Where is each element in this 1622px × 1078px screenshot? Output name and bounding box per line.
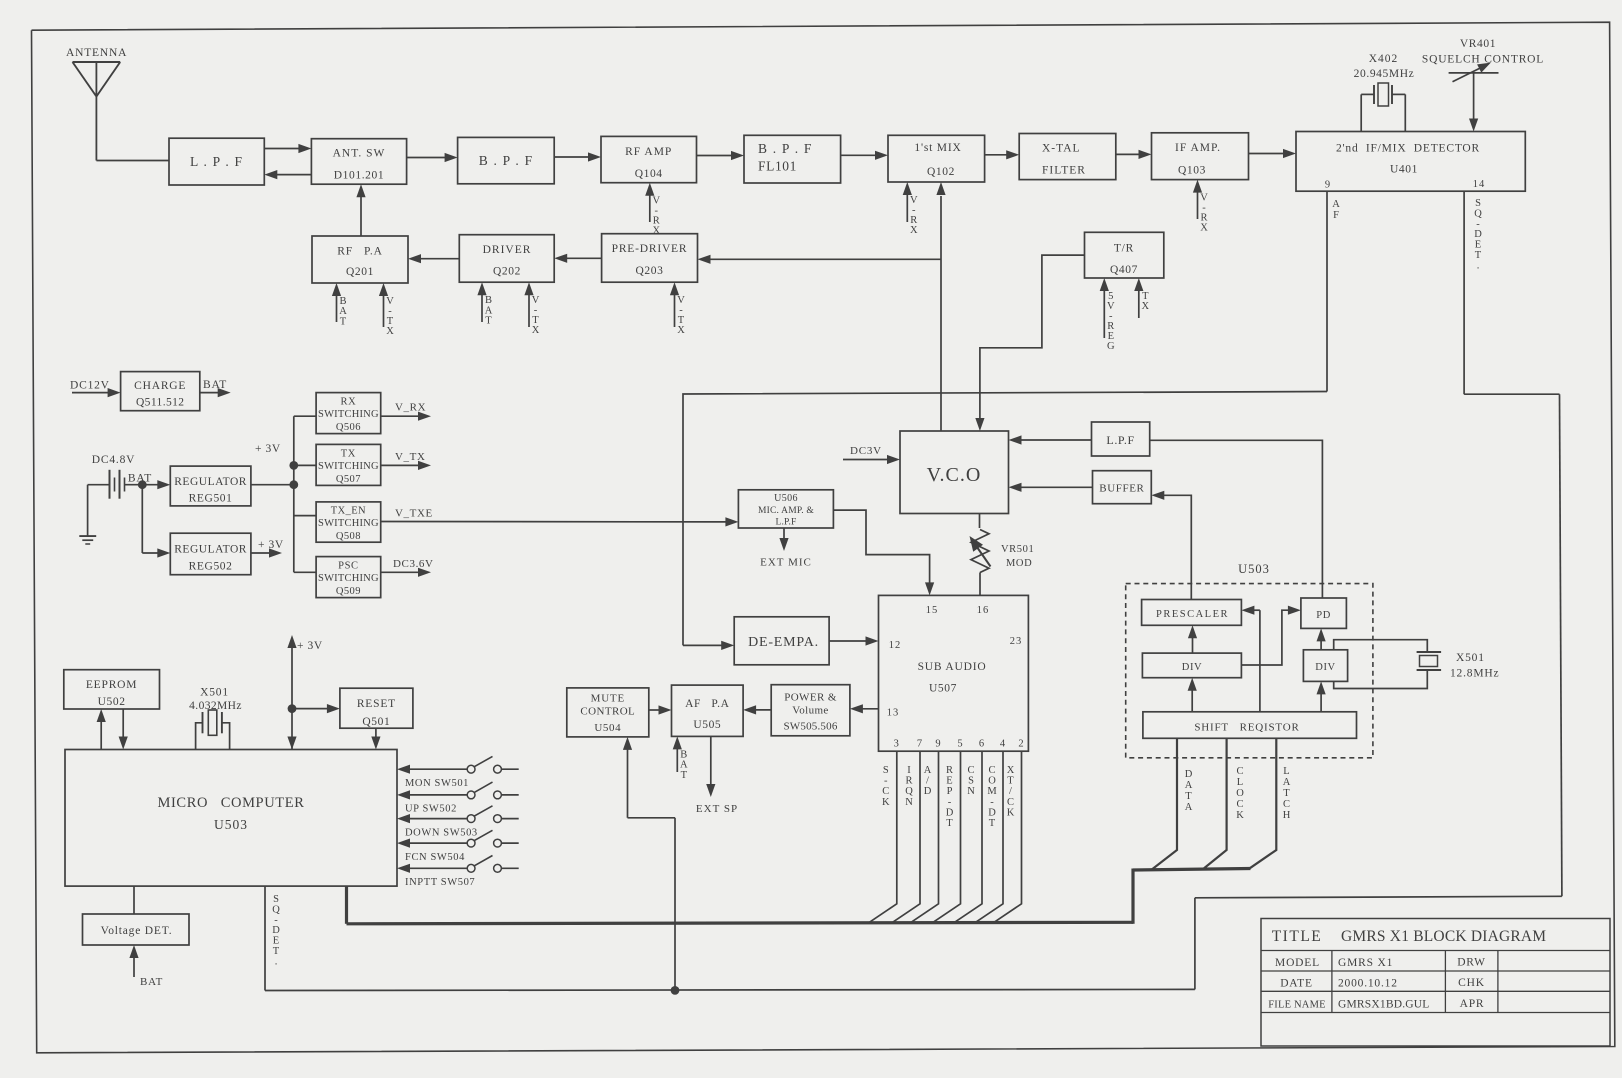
wire RESET to micro [375, 728, 377, 738]
block L.P.F (PLL loop filter) [1092, 422, 1150, 456]
svg-text:F: F [1333, 210, 1339, 221]
svg-text:FCN SW504: FCN SW504 [405, 852, 465, 863]
svg-text:GMRS X1: GMRS X1 [1338, 957, 1393, 969]
wire SQ-DET from micro to U401 pin14 [264, 886, 266, 990]
svg-text:TX: TX [341, 449, 356, 460]
EXT SP arrow [710, 736, 712, 786]
svg-text:ANT. SW: ANT. SW [333, 148, 386, 160]
svg-text:/: / [1009, 786, 1012, 797]
svg-text:U505: U505 [693, 719, 721, 731]
svg-text:D: D [1474, 229, 1482, 240]
EXT MIC arrow [783, 528, 785, 540]
svg-text:Q407: Q407 [1110, 264, 1138, 276]
wire BAT to REG501 [142, 484, 159, 486]
svg-text:Q203: Q203 [636, 265, 664, 277]
wire BPF FL101 to 1st MIX [841, 154, 877, 156]
block ANT.SW D101.201 [311, 139, 406, 185]
svg-text:N: N [905, 797, 913, 808]
svg-text:D: D [946, 807, 954, 818]
svg-text:EXT SP: EXT SP [696, 803, 738, 815]
svg-text:POWER &: POWER & [784, 692, 837, 704]
wire 1st MIX to X-TAL filter [985, 154, 1009, 156]
block T/R Q407 [1085, 232, 1164, 278]
svg-text:Q103: Q103 [1178, 165, 1206, 177]
+3V output arrow of REG502 [251, 552, 271, 554]
svg-text:IF AMP.: IF AMP. [1175, 142, 1221, 154]
svg-text:13: 13 [887, 708, 900, 719]
svg-text:-: - [1476, 219, 1480, 230]
svg-text:T: T [273, 946, 280, 957]
wire micro to EEPROM [100, 720, 102, 750]
block DIV (comparison side) [1303, 650, 1347, 682]
svg-text:PSC: PSC [338, 561, 358, 572]
wire EEPROM to micro [122, 709, 124, 739]
svg-text:DATE: DATE [1280, 978, 1313, 990]
svg-text:Q501: Q501 [362, 716, 390, 728]
wire BUFFER to VCO [1020, 486, 1093, 488]
svg-text:VR501: VR501 [1001, 544, 1034, 555]
ground [87, 485, 89, 536]
svg-text:X: X [532, 325, 540, 336]
svg-text:D: D [988, 807, 996, 818]
svg-text:TITLE: TITLE [1272, 928, 1323, 945]
svg-text:AF P.A: AF P.A [685, 698, 730, 710]
wire PD to LPF [1150, 440, 1323, 598]
block RF P.A Q201 [312, 236, 408, 283]
svg-text:REGULATOR: REGULATOR [174, 476, 247, 488]
svg-text:APR: APR [1460, 998, 1485, 1010]
wire U507 pin fanout SCK [869, 751, 897, 923]
svg-text:U502: U502 [98, 696, 126, 708]
svg-text:.: . [1477, 260, 1480, 271]
svg-text:T: T [485, 316, 492, 327]
wire POWER to AF P.A [754, 709, 771, 711]
block POWER & Volume SW505.506 [771, 685, 850, 736]
svg-text:5: 5 [957, 739, 963, 750]
svg-text:12: 12 [889, 640, 902, 651]
block 1'st MIX Q102 [888, 135, 985, 182]
svg-text:Q: Q [905, 786, 913, 797]
antenna [73, 61, 121, 63]
wire SHIFT REQISTOR to DIV comparison [1320, 692, 1322, 711]
V_TX output arrow [381, 464, 420, 466]
block BUFFER [1093, 471, 1152, 504]
wire PRE-DRIVER to DRIVER [565, 257, 601, 259]
svg-text:12.8MHz: 12.8MHz [1450, 668, 1499, 680]
LATCH line [1250, 738, 1277, 868]
svg-text:U506: U506 [774, 493, 798, 504]
svg-text:Q506: Q506 [336, 422, 361, 433]
svg-text:+ 3V: + 3V [258, 539, 284, 551]
wire DIV comparison to PD [1320, 639, 1322, 649]
branch to PSC switching [294, 571, 316, 573]
svg-text:UP SW502: UP SW502 [405, 804, 457, 815]
block MICRO COMPUTER U503 [65, 750, 397, 887]
svg-text:TX_EN: TX_EN [331, 506, 366, 517]
svg-text:S: S [1475, 198, 1481, 209]
block X-TAL FILTER [1019, 134, 1116, 180]
svg-text:MICRO COMPUTER: MICRO COMPUTER [158, 795, 305, 811]
svg-text:B . P . F: B . P . F [758, 141, 813, 156]
svg-text:A: A [1185, 780, 1193, 791]
V_RX output arrow [381, 415, 420, 417]
svg-text:T: T [989, 818, 996, 829]
wire BAT to REG502 [141, 485, 143, 553]
svg-text:B . P . F: B . P . F [479, 153, 534, 168]
svg-text:U503: U503 [214, 817, 248, 832]
svg-text:DIV: DIV [1315, 662, 1335, 673]
svg-text:T: T [1185, 791, 1192, 802]
svg-text:GMRS X1 BLOCK DIAGRAM: GMRS X1 BLOCK DIAGRAM [1341, 928, 1546, 945]
svg-text:V_TX: V_TX [395, 451, 426, 463]
wire RF AMP to BPF FL101 [697, 155, 734, 157]
junction dot on SQ-DET line [671, 986, 680, 995]
wire ANT.SW to LPF [275, 174, 311, 176]
DATA line [1152, 738, 1177, 869]
svg-text:GMRSX1BD.GUL: GMRSX1BD.GUL [1338, 999, 1430, 1011]
svg-text:SWITCHING: SWITCHING [318, 461, 379, 472]
svg-text:U503: U503 [1238, 562, 1270, 576]
svg-text:DC3V: DC3V [850, 445, 882, 457]
V-RX supply arrow into 1st MIX [906, 193, 908, 222]
wire U507 pin fanout REPDT [933, 751, 961, 923]
wire 1st MIX to VCO (LO injection) [940, 196, 942, 431]
svg-text:C: C [1007, 797, 1014, 808]
svg-text:D101.201: D101.201 [334, 170, 384, 182]
svg-text:RF AMP: RF AMP [625, 146, 672, 158]
svg-text:I: I [907, 765, 911, 776]
svg-text:T: T [1283, 788, 1290, 799]
dashed boundary U503 [1126, 584, 1373, 758]
svg-text:Q509: Q509 [336, 586, 361, 597]
svg-text:SHIFT REQISTOR: SHIFT REQISTOR [1194, 722, 1299, 734]
switch SW503 (DOWN) [397, 814, 410, 823]
block RX SWITCHING Q506 [316, 393, 381, 434]
svg-text:CHARGE: CHARGE [134, 380, 186, 392]
BAT arrow into AF P.A [676, 747, 678, 772]
svg-text:DRW: DRW [1457, 957, 1486, 969]
svg-text:S: S [273, 894, 279, 905]
wire VCO line to PRE-DRIVER [709, 258, 942, 260]
svg-text:REG501: REG501 [189, 493, 233, 505]
svg-text:Q: Q [272, 904, 280, 915]
svg-text:T: T [1007, 776, 1014, 787]
wire mute control feed [627, 748, 629, 818]
block V.C.O [900, 431, 1009, 514]
svg-text:Q: Q [1474, 208, 1482, 219]
svg-text:D: D [1185, 769, 1193, 780]
wire X-TAL filter to IF AMP [1116, 153, 1141, 155]
svg-text:CHK: CHK [1458, 977, 1485, 989]
svg-text:T: T [340, 316, 347, 327]
block REGULATOR REG502 [170, 533, 251, 575]
svg-text:G: G [1107, 341, 1115, 352]
svg-text:DC3.6V: DC3.6V [393, 558, 434, 570]
svg-text:L . P . F: L . P . F [190, 154, 243, 169]
BAT arrow into Voltage DET [133, 956, 135, 977]
svg-text:N: N [967, 786, 975, 797]
branch to TX_EN switching [294, 515, 316, 517]
svg-text:BAT: BAT [203, 379, 227, 391]
svg-text:Voltage DET.: Voltage DET. [101, 925, 173, 937]
wire VR401 to U401 [1473, 73, 1475, 121]
switch SW504 (FCN) [397, 839, 410, 848]
block DE-EMPA. [734, 617, 829, 665]
svg-text:V_TXE: V_TXE [395, 508, 433, 520]
block EEPROM U502 [64, 670, 160, 709]
svg-text:T: T [1475, 250, 1482, 261]
svg-text:O: O [1236, 788, 1244, 799]
wire DIV to PD [1241, 610, 1290, 665]
svg-text:E: E [1475, 240, 1481, 251]
block DRIVER Q202 [459, 235, 554, 283]
svg-text:C: C [988, 765, 995, 776]
svg-text:VR401: VR401 [1460, 38, 1496, 50]
junction BAT node [138, 480, 147, 489]
svg-text:A: A [924, 765, 932, 776]
svg-text:MON SW501: MON SW501 [405, 778, 469, 789]
svg-text:E: E [946, 776, 952, 787]
wire DIV to PRESCALER [1192, 636, 1194, 653]
svg-text:DE-EMPA.: DE-EMPA. [748, 635, 819, 650]
svg-text:A: A [1185, 802, 1193, 813]
svg-text:REG502: REG502 [189, 561, 233, 573]
wire RF P.A to ANT.SW [360, 195, 362, 236]
svg-text:Volume: Volume [792, 705, 828, 717]
svg-text:X: X [653, 226, 661, 237]
svg-text:6: 6 [979, 739, 985, 750]
svg-text:Q202: Q202 [493, 266, 521, 278]
5V-REG supply arrow into T/R [1103, 289, 1105, 338]
svg-text:FILE NAME: FILE NAME [1268, 1000, 1326, 1011]
svg-text:15: 15 [926, 605, 939, 616]
branch to RX switching [294, 415, 316, 417]
block SUB AUDIO U507 [879, 595, 1029, 751]
svg-text:L.P.F: L.P.F [1106, 433, 1134, 447]
svg-text:Q511.512: Q511.512 [136, 397, 184, 409]
block B.P.F [458, 137, 555, 183]
svg-text:X: X [910, 225, 918, 236]
svg-text:7: 7 [917, 739, 923, 750]
svg-text:T/R: T/R [1114, 243, 1134, 255]
svg-text:2000.10.12: 2000.10.12 [1338, 978, 1398, 990]
svg-text:RF P.A: RF P.A [337, 246, 382, 258]
svg-text:X: X [1142, 301, 1150, 312]
svg-text:SWITCHING: SWITCHING [318, 573, 379, 584]
svg-text:V_RX: V_RX [395, 402, 426, 414]
svg-text:S: S [968, 776, 974, 787]
svg-text:L: L [1283, 766, 1289, 777]
svg-text:SW505.506: SW505.506 [783, 721, 837, 733]
svg-text:R: R [946, 765, 953, 776]
block Voltage DET. [83, 914, 190, 945]
BAT supply arrow into RF P.A [336, 294, 338, 322]
block SHIFT REQISTOR [1143, 712, 1357, 739]
svg-text:P: P [947, 786, 953, 797]
block B.P.F FL101 [744, 135, 841, 183]
svg-text:X501: X501 [1456, 652, 1485, 664]
svg-text:DC12V: DC12V [70, 380, 110, 392]
svg-text:DOWN SW503: DOWN SW503 [405, 827, 478, 838]
block CHARGE Q511.512 [121, 372, 200, 411]
wire U507 pin fanout CSN [954, 751, 982, 923]
svg-text:Q104: Q104 [635, 168, 663, 180]
svg-text:20.945MHz: 20.945MHz [1354, 68, 1415, 80]
svg-text:23: 23 [1010, 636, 1023, 647]
svg-text:X402: X402 [1369, 53, 1399, 65]
branch to TX switching [294, 464, 316, 466]
svg-text:9: 9 [1325, 180, 1331, 191]
svg-text:PRESCALER: PRESCALER [1156, 609, 1229, 620]
wire AF from U401 pin9 to DE-EMPA [1326, 191, 1328, 391]
CLOCK line [1203, 738, 1227, 869]
block PRE-DRIVER Q203 [602, 234, 698, 283]
svg-text:9: 9 [935, 739, 941, 750]
svg-text:M: M [987, 786, 997, 797]
svg-text:BAT: BAT [140, 976, 163, 988]
svg-text:2'nd IF/MIX DETECTOR: 2'nd IF/MIX DETECTOR [1336, 143, 1480, 155]
svg-text:X-TAL: X-TAL [1042, 143, 1081, 155]
svg-text:C: C [967, 765, 974, 776]
svg-text:R: R [905, 776, 912, 787]
svg-text:1'st MIX: 1'st MIX [914, 142, 961, 154]
wire DE-EMPA to SUB AUDIO pin12 [829, 640, 867, 642]
svg-text:Q508: Q508 [336, 531, 361, 542]
wire DRIVER to RF P.A [419, 258, 459, 260]
svg-text:MOD: MOD [1006, 558, 1032, 569]
svg-text:T: T [946, 818, 953, 829]
svg-text:C: C [1283, 799, 1290, 810]
svg-text:C: C [1236, 766, 1243, 777]
+3V rail into micro and RESET [291, 646, 293, 750]
svg-text:C: C [1236, 799, 1243, 810]
block MUTE CONTROL U504 [567, 688, 649, 737]
wire IF AMP to detector U401 [1249, 153, 1286, 155]
wire U506 to SUB AUDIO pin15 [833, 510, 929, 584]
block IF AMP. Q103 [1152, 133, 1249, 180]
wire prescaler line to BUFFER [1162, 495, 1191, 599]
V-TX supply arrow into DRIVER [528, 293, 530, 327]
svg-text:L.P.F: L.P.F [775, 518, 796, 528]
V-RX supply arrow into RF AMP [649, 194, 651, 222]
wire LPF to VCO [1020, 439, 1092, 441]
svg-text:A: A [1283, 777, 1291, 788]
svg-text:14: 14 [1473, 179, 1486, 190]
svg-text:X: X [677, 325, 685, 336]
wire DC12V to CHARGE [72, 392, 110, 394]
block PD [1301, 598, 1347, 628]
svg-text:X: X [1200, 223, 1208, 234]
svg-text:3: 3 [894, 739, 900, 750]
DC3.6V output arrow [381, 571, 420, 573]
wire LPF to ANT.SW [264, 148, 300, 150]
svg-text:BUFFER: BUFFER [1099, 483, 1144, 495]
wire antenna to LPF [96, 160, 169, 162]
svg-text:D: D [924, 786, 932, 797]
svg-text:DRIVER: DRIVER [483, 244, 532, 256]
svg-text:FL101: FL101 [758, 159, 797, 174]
svg-text:CONTROL: CONTROL [580, 706, 635, 718]
switch SW507 (INPTT) [397, 864, 410, 873]
svg-text:FILTER: FILTER [1042, 165, 1086, 177]
svg-text:PRE-DRIVER: PRE-DRIVER [612, 243, 688, 255]
svg-text:MIC. AMP. &: MIC. AMP. & [758, 506, 814, 516]
wire U507 pin fanout COMDT [975, 751, 1003, 923]
V-TX supply arrow into RF P.A [383, 294, 385, 327]
svg-text:L: L [1237, 777, 1243, 788]
block AF P.A U505 [672, 685, 744, 736]
wire BPF to RF AMP [554, 156, 590, 158]
block REGULATOR REG501 [170, 466, 251, 506]
svg-text:U507: U507 [929, 683, 957, 695]
svg-text:E: E [273, 936, 279, 947]
wire SHIFT REQISTOR to PRESCALER [1259, 610, 1261, 712]
svg-text:Q102: Q102 [927, 166, 955, 178]
svg-text:DIV: DIV [1182, 662, 1202, 673]
svg-text:DC4.8V: DC4.8V [92, 454, 135, 466]
svg-text:U504: U504 [594, 722, 621, 734]
svg-text:-: - [990, 797, 994, 808]
svg-text:A: A [1332, 199, 1340, 210]
wire V_TXE to U506 [381, 521, 728, 523]
svg-text:H: H [1283, 810, 1291, 821]
svg-text:D: D [272, 925, 280, 936]
svg-text:Q201: Q201 [346, 266, 374, 278]
svg-text:MODEL: MODEL [1275, 957, 1320, 969]
BAT supply arrow into DRIVER [481, 293, 483, 322]
wire pin13 to POWER & volume [861, 708, 879, 710]
block L.P.F (RX low pass filter) [169, 138, 264, 185]
svg-text:/: / [926, 776, 929, 787]
svg-text:K: K [1236, 810, 1244, 821]
crystal X501 12.8MHz [1334, 640, 1428, 652]
svg-text:T: T [681, 770, 688, 781]
svg-text:K: K [882, 797, 890, 808]
switch SW502 (UP) [397, 790, 410, 799]
bus micro to U503 (thick) [345, 886, 348, 924]
svg-text:INPTT SW507: INPTT SW507 [405, 877, 475, 888]
block TX_EN SWITCHING Q508 [316, 502, 381, 542]
wire U507 pin fanout XT/CK [994, 751, 1022, 923]
wire REG501 output rail [251, 484, 294, 486]
block RESET Q501 [340, 688, 413, 728]
svg-text:SWITCHING: SWITCHING [318, 409, 379, 420]
svg-text:16: 16 [977, 605, 990, 616]
switch SW501 (MON) [397, 765, 410, 774]
svg-text:X: X [1007, 765, 1015, 776]
junction dot on rail [289, 480, 298, 489]
junction dot TX branch [289, 461, 298, 470]
svg-text:REGULATOR: REGULATOR [174, 544, 247, 556]
svg-text:RX: RX [341, 397, 357, 408]
V-RX supply arrow into IF AMP [1197, 191, 1199, 219]
svg-text:V.C.O: V.C.O [927, 464, 982, 486]
svg-text:-: - [274, 915, 278, 926]
svg-text:PD: PD [1316, 610, 1331, 621]
block PSC SWITCHING Q509 [316, 557, 381, 598]
block RF AMP Q104 [601, 136, 697, 182]
svg-text:+ 3V: + 3V [297, 640, 323, 652]
svg-text:EXT MIC: EXT MIC [760, 557, 812, 569]
wire MUTE CONTROL to AF P.A [649, 709, 661, 711]
svg-text:C: C [882, 786, 889, 797]
svg-text:X501: X501 [200, 687, 229, 699]
block DIV (reference side) [1142, 653, 1241, 678]
wire T/R to VCO [980, 255, 1085, 420]
svg-text:K: K [1007, 807, 1015, 818]
svg-text:RESET: RESET [357, 698, 396, 710]
svg-text:SUB AUDIO: SUB AUDIO [918, 661, 987, 673]
